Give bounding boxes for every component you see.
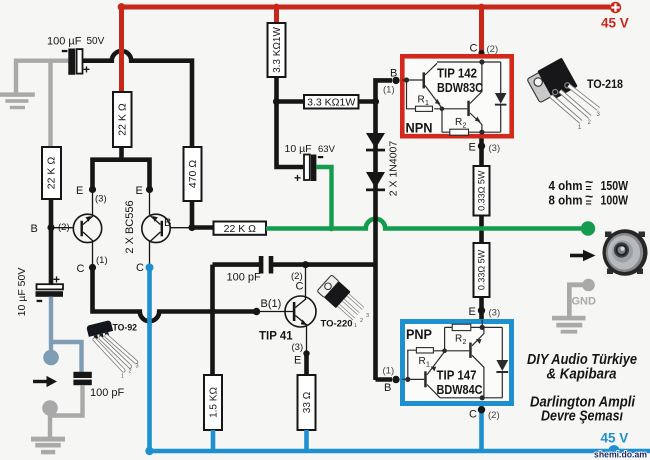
wire blue: resistor tails to rail (213, 430, 307, 451)
svg-text:(3): (3) (95, 194, 107, 205)
wire: TIP41 E to 33 ohm (304, 354, 309, 376)
node blue C right (146, 264, 154, 272)
svg-text:50V: 50V (87, 36, 105, 47)
resistor R 3.3 KOhm 1W (vertical) (268, 23, 286, 77)
resistor R 470 Ohm (184, 147, 202, 201)
resistor R1 (inside PNP) (416, 348, 433, 353)
speaker (603, 228, 648, 278)
svg-text:8 ohm: 8 ohm (549, 194, 583, 208)
wire: emitter join bar to tail resistor (93, 147, 150, 190)
wire thin: base left BC556 (51, 227, 73, 229)
wire: green node to lower 0.33 (479, 231, 484, 243)
svg-text:C: C (296, 281, 304, 293)
svg-text:(3): (3) (292, 342, 304, 353)
svg-text:B(1): B(1) (261, 298, 282, 310)
wire red drop to NPN collector (479, 7, 484, 54)
svg-text:B: B (164, 217, 171, 229)
svg-text:R: R (455, 334, 462, 345)
svg-text:22 K Ω: 22 K Ω (224, 223, 257, 235)
svg-text:E: E (294, 355, 301, 367)
svg-text:TO-92: TO-92 (113, 323, 138, 333)
svg-text:3.3 KΩ1W: 3.3 KΩ1W (307, 97, 355, 109)
node: rail junctions (red) (118, 3, 126, 11)
-45V terminal (608, 445, 619, 456)
svg-text:+: + (83, 63, 90, 77)
TO-92 package (86, 320, 138, 380)
capacitor C 10uF 50V (input coupling) (16, 268, 63, 317)
node B(1) NPN outer (392, 77, 399, 84)
svg-text:Devre Şeması: Devre Şeması (541, 409, 623, 425)
svg-text:C: C (470, 43, 478, 55)
svg-text:E: E (76, 185, 83, 197)
darlington module PNP (blue box) (402, 320, 512, 404)
svg-text:22 K Ω: 22 K Ω (117, 103, 129, 136)
svg-text:R: R (455, 117, 462, 128)
resistor R 22K (feedback, horizontal) (214, 222, 267, 236)
svg-text:B: B (384, 382, 391, 394)
svg-text:2: 2 (129, 369, 132, 375)
title text block (527, 352, 637, 425)
capacitor C 100pF (upper) (213, 262, 375, 267)
node green output terminal (581, 221, 595, 235)
svg-text:R: R (419, 356, 426, 367)
-45V bottom rail (blue) (150, 449, 650, 454)
svg-text:(3): (3) (489, 143, 501, 154)
diode (inside PNP) (496, 360, 508, 371)
ground (bottom-left, gray) (31, 437, 65, 455)
svg-text:33 Ω: 33 Ω (302, 391, 313, 413)
wire: left collector down, hop over blue, to TIP41 base (93, 268, 257, 322)
svg-text:0.33Ω 5W: 0.33Ω 5W (477, 249, 487, 290)
resistor R2 (inside NPN) (450, 129, 469, 135)
svg-text:TIP 147: TIP 147 (437, 368, 477, 383)
+45V terminal (601, 2, 629, 31)
resistor R1 (inside NPN) (416, 106, 433, 111)
svg-text:100 pF: 100 pF (90, 387, 125, 399)
svg-text:(2): (2) (58, 222, 70, 233)
wire: 3.3K to diode node (359, 99, 376, 104)
wire blue: PNP C to rail (479, 404, 484, 452)
node C (2) NPN (479, 50, 485, 56)
svg-text:C: C (77, 263, 85, 275)
wire: PNP B entry (376, 377, 393, 382)
transistor Q1 BC556 (left) (73, 190, 101, 268)
svg-text:22 K Ω: 22 K Ω (46, 157, 58, 190)
svg-text:4 ohm: 4 ohm (549, 179, 583, 193)
svg-text:10 µF: 10 µF (285, 143, 312, 155)
resistor R 1.5 KOhm (204, 375, 222, 430)
resistor R 0.33 Ohm 5W (lower) (474, 243, 490, 297)
transistor Q1 (inside NPN) (423, 72, 426, 88)
svg-text:shemi.do.am: shemi.do.am (594, 450, 647, 460)
svg-text:TIP 41: TIP 41 (259, 331, 293, 343)
svg-text:B: B (390, 68, 397, 80)
svg-text:NPN: NPN (406, 121, 433, 136)
load text 4/8 ohm (549, 174, 629, 210)
svg-text:(3): (3) (489, 308, 501, 319)
wire gray: ground to 100uF minus and branch to R 22K left (16, 61, 68, 147)
svg-text:1: 1 (354, 323, 357, 329)
diode (inside NPN) (495, 93, 507, 104)
svg-text:+: + (294, 171, 301, 185)
node B (2) (47, 224, 54, 231)
nodes inside NPN (404, 77, 409, 82)
svg-text:3.3 KΩ1W: 3.3 KΩ1W (272, 27, 283, 73)
svg-text:TO-218: TO-218 (587, 79, 624, 91)
resistor R 22K (left bias) (42, 147, 61, 199)
wire: bias chain vertical (NPN B to PNP B) (376, 80, 393, 380)
node input sleeve (42, 400, 58, 416)
wire blue: right collector to bottom rail (147, 268, 152, 452)
nodes inside PNP (405, 377, 410, 382)
svg-text:C: C (136, 262, 144, 274)
capacitor C 100uF 50V (47, 36, 105, 77)
transistor Q3 TIP41 (257, 265, 317, 354)
svg-text:TIP 142: TIP 142 (437, 66, 477, 81)
svg-text:470 Ω: 470 Ω (187, 160, 199, 188)
svg-text:GND: GND (572, 296, 597, 308)
svg-text:PNP: PNP (406, 327, 432, 342)
svg-text:C: C (469, 409, 477, 421)
svg-text:3: 3 (136, 364, 139, 370)
capacitor C 100pF (input) (73, 372, 91, 385)
node E left (89, 186, 96, 193)
svg-text:+: + (53, 273, 60, 287)
svg-text:(1): (1) (96, 255, 108, 266)
wire red drop to R 3.3K (274, 7, 279, 23)
wire slate: input tip to cap and to 100pF (51, 297, 82, 372)
svg-text:63V: 63V (318, 144, 336, 155)
diode D1 1N4007 (366, 133, 385, 151)
svg-text:2 X BC556: 2 X BC556 (124, 200, 136, 253)
input arrow (33, 380, 48, 383)
wire: 0.33 to green node (479, 216, 484, 227)
resistor R 3.3 KOhm 1W (horizontal) (304, 95, 359, 109)
wire: 3.3K junction chain down to 10uF63V (277, 77, 304, 167)
wire gray: 100pF to sleeve node to ground (50, 385, 83, 437)
wire green: output line (266, 219, 581, 229)
svg-text:1: 1 (121, 374, 124, 380)
resistor R 22K (tail from +45V) (113, 92, 132, 147)
svg-text:E: E (469, 306, 476, 318)
svg-text:2: 2 (463, 123, 467, 130)
node E right (146, 186, 153, 193)
node green junctions (329, 226, 335, 232)
wire: vertical at 212 (B line to 1.5K) (210, 265, 215, 375)
svg-text:45 V: 45 V (601, 16, 629, 31)
capacitor C 10uF 63V (285, 143, 336, 185)
svg-text:10 µF 50V: 10 µF 50V (16, 268, 28, 317)
svg-text:(1): (1) (383, 366, 395, 377)
svg-text:BDW84C: BDW84C (437, 382, 484, 397)
svg-text:2 X 1N4007: 2 X 1N4007 (388, 141, 400, 197)
node input tip (43, 350, 59, 366)
svg-text:BDW83C: BDW83C (437, 80, 484, 95)
node B(1) TIP41 (253, 308, 260, 315)
svg-text:R: R (418, 95, 425, 106)
svg-text:(1): (1) (383, 85, 395, 96)
svg-text:100 µF: 100 µF (47, 36, 82, 48)
svg-text:B: B (31, 223, 38, 235)
svg-text:E: E (469, 142, 476, 154)
TO-220 package (317, 275, 369, 330)
darlington module NPN (red box) (402, 56, 512, 136)
transistor Q2 (inside PNP) (469, 343, 472, 358)
svg-text:& Kapibara: & Kapibara (547, 367, 617, 383)
svg-text:100 pF: 100 pF (227, 272, 262, 284)
svg-text:1: 1 (425, 100, 429, 107)
wire black rail: 100uF+ hop over red, to 470 drop (83, 51, 193, 147)
wire: 0.33 to PNP E (479, 297, 484, 319)
resistor R 0.33 Ohm 5W (upper) (474, 166, 490, 216)
svg-text:TO-220: TO-220 (321, 319, 353, 330)
speaker arrow (570, 254, 584, 258)
wire red drop to R 22K tail (119, 7, 124, 92)
wire: NPN E to 0.33 (479, 139, 484, 167)
svg-text:0.33Ω 5W: 0.33Ω 5W (477, 170, 487, 211)
TO-218 package (526, 58, 624, 131)
svg-text:1: 1 (426, 362, 430, 369)
svg-text:3: 3 (366, 313, 369, 319)
resistor R 33 Ohm (298, 375, 316, 430)
svg-text:E: E (136, 185, 143, 197)
wire: 470 to base node to 22K feedback (192, 201, 214, 228)
svg-text:1.5 KΩ: 1.5 KΩ (209, 387, 220, 418)
+45V top rail (red) (122, 5, 611, 10)
node C (1) left (89, 264, 96, 271)
svg-text:150W: 150W (601, 179, 629, 193)
svg-text:2: 2 (360, 318, 363, 324)
ground (top-left, gray) (0, 92, 35, 109)
wire green: 10uF to output line (316, 167, 331, 229)
svg-text:2: 2 (463, 339, 467, 346)
wire: left chain 22K to B node to 10uF cap (49, 199, 54, 285)
svg-text:45 V: 45 V (601, 431, 629, 446)
svg-text:(2): (2) (487, 44, 499, 55)
transistor Q2 BC556 (right) (142, 190, 170, 268)
transistor Q1 (inside PNP) (424, 371, 427, 387)
svg-text:(2): (2) (488, 410, 500, 421)
diode D2 1N4007 (366, 172, 385, 191)
svg-text:=: = (586, 197, 592, 209)
GND symbol (right, gray) (552, 279, 595, 334)
svg-text:100W: 100W (601, 194, 629, 208)
resistor R2 (inside PNP) (452, 324, 471, 330)
transistor Q2 (inside NPN) (467, 101, 470, 116)
